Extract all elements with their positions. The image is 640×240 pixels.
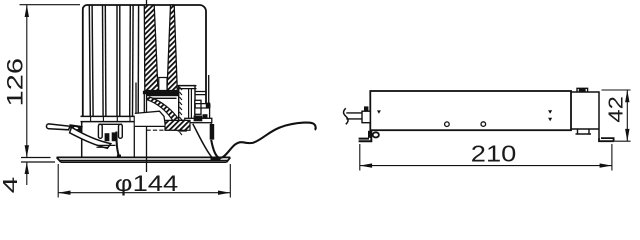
band step line — [178, 92, 206, 95]
terminal side square dark — [203, 114, 208, 118]
dark cast band (section top) — [146, 91, 178, 96]
trim flange — [57, 157, 231, 162]
cord junction on flange — [211, 157, 221, 160]
mark triangle left — [377, 110, 381, 113]
spring clip housing left post — [98, 124, 102, 138]
dim 4 arrow — [25, 162, 29, 174]
svg-text:210: 210 — [471, 141, 517, 167]
svg-text:φ144: φ144 — [115, 171, 179, 196]
hatched wedge 1 (section cut) — [144, 5, 160, 91]
fin base plate line upper — [81, 115, 147, 117]
connector latch — [364, 106, 368, 111]
fin base plate line lower — [81, 121, 147, 123]
power cord — [211, 123, 316, 158]
dim 126 arrow top — [25, 5, 29, 17]
side bracket screw (dark) — [206, 103, 210, 108]
mark triangle right upper — [548, 110, 552, 114]
dim phi144 extension left — [57, 164, 59, 198]
dim 210 extension right — [611, 144, 613, 171]
cavity / reflector hatched wall — [147, 97, 186, 131]
fin 8 — [132, 5, 135, 117]
cable grommet stem — [210, 123, 212, 124]
fin 5 — [116, 5, 118, 117]
dim 210 line — [360, 165, 612, 167]
right bracket — [571, 92, 599, 138]
hidden dash line — [147, 129, 188, 131]
center line — [146, 0, 148, 172]
band flare left — [143, 91, 146, 94]
section inner column — [136, 83, 144, 115]
left leg boss (dark) — [368, 131, 372, 138]
lower body left wall — [81, 122, 83, 158]
right mounting leg — [599, 138, 614, 142]
svg-text:126: 126 — [3, 58, 28, 107]
fin 4 — [104, 5, 107, 117]
lower body inner wall — [133, 117, 135, 158]
spring slot bar right (dark) — [112, 132, 117, 141]
cord to plug — [346, 113, 362, 119]
dim 4 stem — [26, 162, 28, 185]
dim 4 extension lower — [21, 161, 55, 163]
svg-text:4: 4 — [0, 177, 22, 194]
cable grommet (dark) — [210, 124, 215, 140]
band lip line — [146, 97, 176, 99]
dim phi144 line — [58, 192, 230, 194]
dim 42 arrow top — [625, 90, 629, 102]
terminal block dark — [194, 116, 203, 122]
fin 3 — [102, 5, 105, 117]
clip arm — [46, 124, 70, 130]
spring leaf band — [70, 127, 111, 148]
dim 42 line — [626, 90, 628, 141]
svg-text:42: 42 — [606, 96, 628, 123]
holder inner line — [189, 89, 192, 119]
fin 2 — [92, 5, 93, 117]
driver box outline — [370, 91, 571, 130]
dim 42 extension bottom — [604, 140, 631, 142]
right bracket top tab — [577, 88, 588, 92]
plate ticks — [91, 116, 141, 121]
holder hatch edge — [180, 87, 183, 135]
dim 126 arrow bottom — [25, 145, 29, 157]
body outline — [83, 5, 206, 117]
fin 7 — [129, 5, 132, 117]
terminal bar — [185, 118, 212, 122]
right bracket lower tab — [576, 129, 592, 134]
dim phi144 arrow left — [58, 191, 70, 195]
hatched wedge 2 (section cut) — [167, 5, 177, 91]
dim 42 extension top — [602, 89, 631, 91]
spring clip housing right post — [119, 124, 123, 138]
clip pivot eye — [74, 127, 79, 130]
body right lower edge — [208, 75, 211, 118]
dim 42 arrow bottom — [625, 129, 629, 141]
mixing cavity — [135, 111, 166, 126]
terminal block (dark) — [195, 100, 201, 114]
dim phi144 extension right — [229, 164, 231, 198]
left leg loop — [373, 132, 379, 137]
mark triangle right lower — [548, 118, 552, 122]
dim 126 line — [26, 5, 28, 158]
dim 126 extension top — [20, 4, 81, 6]
spring fold line — [97, 145, 116, 147]
dim 210 arrow right — [600, 163, 612, 167]
left mounting leg — [359, 130, 372, 141]
clip pivot (dark) — [70, 125, 82, 132]
fin 1 — [89, 5, 90, 117]
cord break wave — [344, 108, 349, 124]
fin 9 — [137, 5, 139, 117]
vent hole 2 — [481, 122, 486, 127]
spring clip housing top — [98, 123, 122, 125]
dim 210 arrow left — [360, 163, 372, 167]
spring slot bar left (dark) — [105, 133, 110, 141]
dim 210 extension left — [359, 144, 361, 171]
flange inner line — [59, 159, 228, 161]
hatched base flange of section — [165, 120, 190, 130]
side bracket upper — [195, 104, 210, 108]
vent hole 1 — [445, 122, 450, 127]
trim cone profile — [193, 124, 212, 157]
fin 6 — [119, 5, 121, 117]
right bracket screw (dark) — [579, 89, 586, 92]
dim 4 extension upper — [21, 157, 51, 159]
holder top cap — [177, 86, 196, 89]
connector plug — [362, 111, 370, 123]
spring wire end — [116, 132, 121, 156]
dim phi144 arrow right — [218, 191, 230, 195]
lamp holder block — [179, 86, 195, 121]
white step block between wedges — [159, 78, 167, 91]
